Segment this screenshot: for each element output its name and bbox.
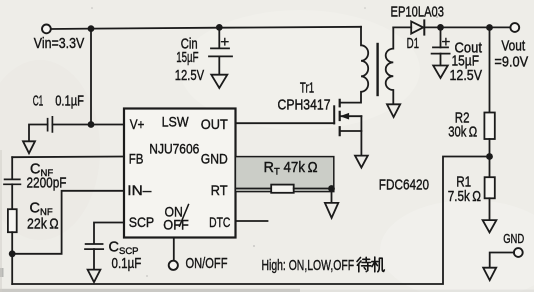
svg-text:FB: FB xyxy=(129,151,144,167)
svg-text:V+: V+ xyxy=(130,117,145,133)
wire SCP lead xyxy=(94,223,124,244)
diode D1 xyxy=(411,21,423,33)
ground Cout xyxy=(433,66,448,79)
svg-text:C1: C1 xyxy=(33,93,44,109)
wire CSCP lower lead xyxy=(93,249,95,269)
svg-text:EP10LA03: EP10LA03 xyxy=(391,4,445,20)
svg-text:SCP: SCP xyxy=(129,215,155,231)
svg-text:LSW: LSW xyxy=(162,114,190,130)
transistor Q1 arrowhead xyxy=(341,113,349,119)
wire CNF upper lead xyxy=(11,157,13,178)
resistor R2 xyxy=(484,113,494,140)
wire RNF down to bottom rail xyxy=(11,232,13,284)
ground secondary xyxy=(387,104,400,117)
svg-text:=9.0V: =9.0V xyxy=(494,54,528,70)
hanzi ji xyxy=(372,257,378,272)
svg-text:47k Ω: 47k Ω xyxy=(284,160,318,176)
resistor R1 xyxy=(485,177,495,198)
polarity plus Cin xyxy=(222,39,228,45)
svg-text:30k Ω: 30k Ω xyxy=(448,125,477,141)
junction top rail / Cin branch xyxy=(216,24,223,31)
svg-text:12.5V: 12.5V xyxy=(450,68,483,84)
svg-text:High: ON,LOW,OFF: High: ON,LOW,OFF xyxy=(262,257,355,274)
junction V+ line xyxy=(88,121,95,128)
junction Cout branch xyxy=(437,24,444,31)
wire RT resistor to node xyxy=(294,188,332,190)
svg-text:0.1µF: 0.1µF xyxy=(55,93,84,109)
label standby hanzi xyxy=(357,257,384,272)
wire divider node to bottom rail xyxy=(12,157,489,285)
ground Q1 source xyxy=(355,156,368,168)
wire RT pin to resistor xyxy=(236,188,272,190)
junction RT node xyxy=(328,185,335,192)
transistor Q1 body arrow wire xyxy=(341,115,362,117)
op-amp U1 NJU7606 body xyxy=(124,109,236,238)
polarity plus Cout xyxy=(443,38,449,44)
svg-text:2200pF: 2200pF xyxy=(27,176,67,192)
transformer core xyxy=(376,44,378,95)
svg-text:Vout: Vout xyxy=(501,39,525,55)
svg-text:IN–: IN– xyxy=(127,183,151,199)
svg-text:ON/OFF: ON/OFF xyxy=(186,255,228,272)
svg-text:15µF: 15µF xyxy=(176,50,198,66)
svg-text:GND: GND xyxy=(201,151,228,167)
svg-text:7.5k Ω: 7.5k Ω xyxy=(448,189,481,205)
svg-text:OFF: OFF xyxy=(163,218,189,234)
wire CNF to RNF xyxy=(11,184,13,209)
wire secondary to diode xyxy=(393,26,411,28)
svg-text:12.5V: 12.5V xyxy=(175,68,205,84)
terminal Vin xyxy=(42,25,51,34)
wire DTC stub xyxy=(236,220,268,222)
svg-text:22k Ω: 22k Ω xyxy=(27,216,59,232)
svg-text:OUT: OUT xyxy=(201,117,228,133)
ground RT xyxy=(325,203,338,218)
capacitor C1 xyxy=(48,117,53,132)
wire Cout upper lead xyxy=(440,27,442,47)
ground C1 xyxy=(23,141,35,153)
terminal Vout xyxy=(510,23,519,32)
wire Vin branch down to V+ line xyxy=(90,29,92,125)
wire C1 left lead xyxy=(29,125,48,142)
capacitor CNF 2200pF xyxy=(4,179,20,184)
junction feedback node xyxy=(9,250,16,257)
wire R1 lower lead xyxy=(489,198,491,220)
capacitor CSCP xyxy=(85,244,103,249)
svg-text:DTC: DTC xyxy=(209,215,230,231)
transformer secondary winding xyxy=(386,27,394,103)
hanzi dai xyxy=(357,258,361,272)
wire GND terminal xyxy=(490,253,514,268)
svg-text:15µF: 15µF xyxy=(452,53,480,69)
transistor Q1 source wire xyxy=(341,130,362,132)
svg-text:RT: RT xyxy=(211,183,228,199)
scan artifact bottom edge xyxy=(0,289,300,292)
wire C1 to V+ pin xyxy=(52,124,124,126)
wire OUT pin to gate xyxy=(236,122,335,124)
svg-text:GND: GND xyxy=(503,231,524,246)
wire Cin lead xyxy=(218,28,220,48)
svg-text:FDC6420: FDC6420 xyxy=(379,177,429,193)
junction divider node xyxy=(486,153,493,160)
transistor Q1 channel segments xyxy=(339,100,341,135)
resistor RT 47k xyxy=(271,185,294,193)
svg-text:D1: D1 xyxy=(407,36,419,52)
wire R1 upper lead xyxy=(489,157,491,178)
svg-text:NJU7606: NJU7606 xyxy=(149,141,199,157)
wire output rail xyxy=(424,26,510,28)
wire R2 to node xyxy=(489,139,491,157)
ground GND terminal xyxy=(483,268,496,281)
svg-text:CPH3417: CPH3417 xyxy=(278,97,331,113)
wire RT node down xyxy=(331,189,333,203)
transformer Tr1 primary winding xyxy=(341,27,368,103)
svg-text:Vin=3.3V: Vin=3.3V xyxy=(34,36,85,52)
svg-text:Tr1: Tr1 xyxy=(300,81,314,97)
ground Cin xyxy=(211,75,227,88)
ground CSCP xyxy=(88,270,101,283)
ground R1 xyxy=(483,220,497,232)
wire FB line xyxy=(12,156,124,159)
resistor RNF 22k xyxy=(8,209,17,232)
junction top rail / V+ branch xyxy=(88,25,95,32)
wire R2 upper lead xyxy=(489,28,491,113)
transistor Q1 gate bar xyxy=(333,106,335,123)
wire Cin lower lead xyxy=(218,56,220,74)
terminal ON/OFF xyxy=(169,261,178,270)
wire feedback node to IN- xyxy=(12,191,124,254)
capacitor Cin xyxy=(209,48,232,56)
node RT highlight box xyxy=(235,157,333,192)
junction R2 branch xyxy=(486,24,493,31)
terminal GND xyxy=(514,248,523,257)
wire Cout lower lead xyxy=(440,54,442,66)
diode D1 cathode bar xyxy=(423,20,425,34)
svg-text:0.1µF: 0.1µF xyxy=(112,256,142,272)
wire ON/OFF lead xyxy=(173,238,175,261)
wire source down xyxy=(360,116,362,155)
wire top rail from Vin to transformer primary xyxy=(51,27,361,29)
capacitor Cout xyxy=(432,47,450,53)
